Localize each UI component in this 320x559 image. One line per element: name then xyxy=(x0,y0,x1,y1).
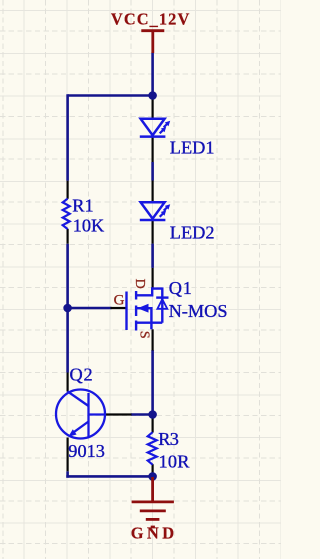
svg-text:S: S xyxy=(136,331,151,339)
svg-text:9013: 9013 xyxy=(68,441,105,461)
svg-text:10R: 10R xyxy=(159,452,191,472)
svg-text:G: G xyxy=(114,292,125,308)
svg-text:GND: GND xyxy=(131,523,175,542)
svg-text:VCC_12V: VCC_12V xyxy=(111,10,190,29)
svg-text:10K: 10K xyxy=(73,215,105,235)
svg-text:LED2: LED2 xyxy=(170,223,215,243)
svg-text:Q2: Q2 xyxy=(70,364,93,384)
svg-text:D: D xyxy=(132,279,147,289)
svg-text:LED1: LED1 xyxy=(170,138,215,158)
svg-text:R3: R3 xyxy=(158,429,179,449)
svg-text:N-MOS: N-MOS xyxy=(169,301,228,321)
svg-text:Q1: Q1 xyxy=(169,278,192,298)
svg-text:R1: R1 xyxy=(72,196,93,216)
